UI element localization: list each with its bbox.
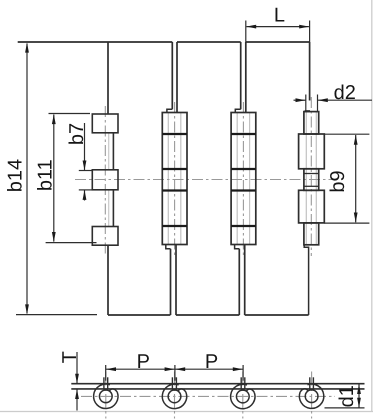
plate gap marks hinge 3 [240,377,242,389]
dimension b9 top extension [324,133,369,135]
hinge B joint line 3 [231,189,256,191]
right hinge center sleeve line 2 [304,185,319,187]
dimension L left extension [245,21,247,43]
dimension b9 bottom extension [324,222,369,224]
plate1/plate2 gap upper left line [171,42,173,109]
b11 arrow down [52,232,56,242]
P2 arrow right [233,367,243,371]
hidden pin edges hinge A [168,113,181,245]
right hinge center sleeve line 1 [304,173,319,175]
svg-text:T: T [59,351,81,363]
b7 upper line and arrow down [84,123,86,171]
right hinge center sleeve [304,169,319,191]
curl hook 2 [178,389,186,392]
dimension d2 right tick [317,95,319,112]
dimension T lower line and arrow [76,389,78,411]
dimension d1 line [358,384,360,408]
svg-text:P: P [205,351,218,373]
left hinge barrel edge between knuckles lower [112,190,114,227]
plate2/plate3 gap upper left line [240,42,242,109]
plate2/plate3 gap upper right line [245,42,247,113]
plate1/plate2 gap upper right line [176,42,178,113]
plate 3 bottom edge [245,314,309,316]
bottom view horizontal centerline [81,395,335,397]
svg-text:b14: b14 [5,159,27,192]
dimension P line [106,368,243,370]
hinge A vertical centerline [174,102,176,256]
main horizontal centerline [75,179,334,181]
left hinge bottom knuckle [92,227,118,246]
b14 arrow up [25,43,29,53]
right hinge lower barrel [299,190,325,223]
dimension b11 bottom extension [46,242,97,244]
svg-text:P: P [137,351,150,373]
hinge B top notch [235,109,240,112]
dimension P extension 1 [105,365,107,381]
left hinge barrel edge between knuckles upper [112,133,114,170]
L arrow right [299,25,309,29]
hidden pin edges hinge B [237,113,249,245]
hinge B joint line 4 [231,225,256,227]
pin 1 vertical centerline [105,372,107,419]
pin 4 [305,390,318,403]
d1 arrow down [357,398,361,408]
pin 3 [236,390,249,403]
plate 1 top edge with b14 extension [18,41,173,43]
plate2/plate3 gap lower left line [238,249,240,315]
b14 arrow down [25,304,29,314]
svg-text:b7: b7 [66,123,88,145]
right hinge top sleeve [304,112,319,134]
frame bottom separator [0,411,373,413]
dimension T upper line and arrow [76,352,78,384]
dimension L line [247,26,309,28]
b9 arrow down [354,213,358,223]
pin 2 [168,390,181,403]
dimension P extension 3 [242,365,244,381]
plate 1 bottom edge [108,314,170,316]
dimension b9 line [355,135,357,222]
P2 arrow left [175,367,185,371]
hinge A knuckle stack outline [162,113,187,245]
dimension b7 top extension [79,170,93,172]
P1 arrow left [106,367,116,371]
pin 4 vertical centerline [311,372,313,419]
hinge A joint line 1 [162,133,187,135]
curl hook 3 [246,389,254,392]
dimension b7 bottom extension [79,189,93,191]
plate 3 right lower edge with step [304,245,308,315]
plate 2 top edge [177,41,241,43]
plate gap marks hinge 1 [103,377,105,389]
plate1/plate2 gap lower right line [175,245,177,316]
right hinge pin top step [305,110,310,112]
d2 right line and arrow [318,99,373,101]
hinge A top notch [167,109,172,112]
plate gap marks hinge 4 [309,377,311,389]
hinge B joint line 2 [231,168,256,170]
b14 bottom extension line [16,314,97,316]
curl circle 1 [94,384,118,408]
hinge A bottom notch [166,245,171,249]
plate 3 right edge upper [309,42,311,101]
b11 arrow up [52,114,56,124]
b7 lower line and arrow up [84,190,86,201]
curl hook 1 [109,389,117,392]
dimension d2 left tick [305,95,307,112]
hidden pin edge left hinge [108,133,110,227]
frame right border [371,0,373,412]
plate 2 bottom edge [176,314,239,316]
left hinge top knuckle [92,114,118,133]
plate 1 left edge lower [107,245,109,315]
plate1/plate2 gap lower left line [170,249,172,315]
dimension P extension 2 [174,365,176,381]
hinge B knuckle stack outline [231,113,256,245]
plate2/plate3 gap lower right line [244,245,246,316]
plate gap marks hinge 2 [171,377,173,389]
P1 arrow right [165,367,175,371]
curl hook 4 [300,389,308,392]
plate band top surface [71,383,364,385]
hinge B vertical centerline [242,102,244,256]
b9 arrow up [354,135,358,145]
svg-text:b11: b11 [35,159,57,191]
hinge A joint line 3 [162,189,187,191]
plate band bottom surface [71,388,364,390]
dimension b11 line [53,115,55,242]
dimension b14 line [26,44,28,314]
svg-text:b9: b9 [327,170,349,192]
svg-text:d2: d2 [334,82,356,104]
d1 bottom extension (curl tangent) [325,407,365,409]
L arrow left [246,25,256,29]
pin 3 vertical centerline [242,372,244,419]
right hinge bottom sleeve [304,223,319,245]
plate 1 left edge upper [107,42,109,114]
svg-text:d1: d1 [336,385,358,407]
plate 3 top edge [246,41,310,43]
curl circle 4 [299,384,323,408]
dimension b11 top extension [49,113,91,115]
hidden pin edges right hinge [306,112,316,245]
hinge A joint line 2 [162,168,187,170]
curl circle 2 [162,384,186,408]
right hinge vertical centerline [310,97,312,256]
d2 left line and arrow [294,99,306,101]
hinge B bottom notch [235,245,240,249]
d1 arrow up [357,384,361,394]
pin 1 [99,390,112,403]
dimension L right extension [309,21,311,43]
left hinge middle knuckle [92,170,118,190]
hinge B joint line 1 [231,133,256,135]
pin 2 vertical centerline [174,372,176,419]
right hinge upper barrel [299,134,325,169]
svg-text:L: L [274,5,285,27]
left hinge vertical centerline [104,106,106,256]
curl circle 3 [231,384,255,408]
hinge A joint line 4 [162,225,187,227]
